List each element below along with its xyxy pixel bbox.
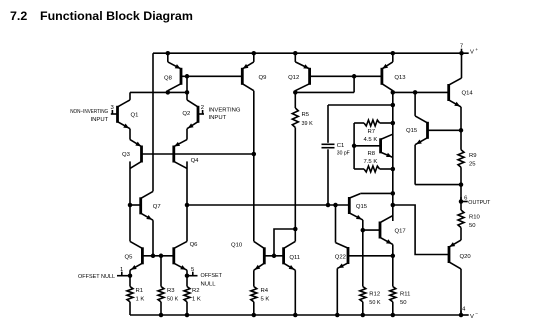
- pin 3 label: [111, 105, 115, 111]
- label R5: [302, 112, 313, 127]
- svg-text:NULL: NULL: [201, 282, 217, 288]
- svg-text:R8: R8: [368, 151, 376, 157]
- wire Q20 collector down: [460, 269, 462, 315]
- svg-text:25: 25: [469, 162, 476, 168]
- junction dot Q8 collector: [166, 90, 171, 95]
- wire R11 to rail: [392, 302, 394, 315]
- svg-text:R4: R4: [261, 288, 269, 294]
- wire R2 lead: [186, 276, 188, 287]
- wire Q15 driver emitter down: [362, 220, 364, 287]
- wire base tie down: [353, 76, 355, 92]
- label Q15 driver: [356, 204, 368, 210]
- wire Q2 collector up: [186, 92, 188, 100]
- svg-text:Q4: Q4: [191, 158, 200, 164]
- pin 3 tick: [111, 110, 113, 114]
- wire Q3-Q4 base line: [142, 153, 174, 155]
- junction dot Q22 emitter rail: [335, 313, 340, 318]
- wire Q6 emitter down: [186, 270, 188, 276]
- junction dot VBE base tap: [352, 144, 357, 149]
- svg-text:R3: R3: [167, 288, 175, 294]
- svg-text:−: −: [475, 312, 478, 317]
- label R11: [400, 291, 410, 306]
- svg-text:NON−INVERTING: NON−INVERTING: [70, 109, 108, 116]
- svg-text:Q8: Q8: [164, 76, 173, 82]
- wire R1 lead: [129, 276, 131, 287]
- wire mid node line: [187, 204, 349, 206]
- transistor Q6: [174, 241, 187, 270]
- label R10: [469, 214, 481, 229]
- junction dot R7 right: [391, 121, 396, 126]
- label Q6: [190, 242, 199, 248]
- wire Q11 collector up: [294, 229, 296, 241]
- label NON-INVERTING INPUT: [70, 109, 108, 123]
- label Q2: [182, 111, 190, 117]
- wire Q15 collector up: [414, 92, 416, 116]
- pin 1 tick: [121, 272, 123, 276]
- wire Q17 emitter down: [392, 244, 394, 286]
- junction dot C1 bottom: [326, 203, 331, 208]
- svg-text:Q17: Q17: [395, 229, 406, 235]
- transistor Q17: [380, 216, 393, 245]
- wire Q3 collector down: [129, 161, 131, 241]
- junction dot Q22 collector tap: [333, 203, 338, 208]
- label Q8: [164, 76, 173, 82]
- junction dot Q11 emitter rail: [293, 313, 298, 318]
- wire Q2 emitter down: [186, 129, 188, 140]
- svg-text:1 K: 1 K: [136, 297, 145, 303]
- wire V+ left wrap to Q7 collector: [152, 53, 154, 191]
- wire Q13 emitter to rail: [392, 53, 394, 62]
- label Q1: [131, 113, 139, 119]
- svg-text:Q3: Q3: [122, 152, 131, 158]
- transistor Q13: [382, 62, 393, 91]
- pin 1 wire: [117, 275, 130, 277]
- pin 4 tick: [460, 311, 462, 316]
- wire Q14 collector to rail: [461, 53, 463, 78]
- svg-text:5 K: 5 K: [261, 297, 270, 303]
- junction dot Q17 base: [361, 228, 366, 233]
- junction dot pin 4 rail end: [459, 313, 464, 318]
- wire R4 to rail: [253, 302, 255, 315]
- transistor Q15 current limit: [415, 116, 427, 145]
- resistor R5: [292, 108, 298, 128]
- node V+ label: [470, 48, 478, 56]
- wire Q22 base line: [348, 255, 393, 257]
- junction dot R11 rail: [391, 313, 396, 318]
- pin 5 wire: [187, 275, 198, 277]
- svg-text:V: V: [470, 50, 474, 56]
- wire R2 to rail: [186, 302, 188, 315]
- wire Q10-Q11 base riser: [274, 229, 295, 256]
- pin 6 tick: [460, 197, 462, 202]
- label R1: [136, 288, 145, 303]
- junction dot R3 rail: [159, 313, 164, 318]
- svg-text:7.5 K: 7.5 K: [364, 159, 378, 165]
- wire Q7 base: [130, 204, 141, 206]
- transistor Q15 driver: [349, 194, 363, 220]
- label Q13: [394, 75, 406, 81]
- capacitor C1 plates: [322, 144, 335, 147]
- junction dot Q15 collector link: [391, 191, 396, 196]
- label Q12: [288, 75, 299, 81]
- wire Q15 emitter to output node: [415, 184, 461, 186]
- junction dot Q7 base: [128, 203, 133, 208]
- wire Q17 base: [363, 229, 380, 231]
- wire C1 lower lead: [327, 149, 329, 205]
- transistor Q20: [449, 240, 461, 269]
- junction dot pin 7: [459, 51, 464, 56]
- junction dot R9 bottom output node: [459, 182, 464, 187]
- label R3: [167, 288, 178, 303]
- svg-text:Q11: Q11: [289, 255, 300, 261]
- svg-text:Q10: Q10: [231, 243, 243, 249]
- svg-text:R2: R2: [192, 288, 200, 294]
- svg-text:Q2: Q2: [182, 111, 190, 117]
- resistor R10: [458, 210, 464, 228]
- wire Q14 emitter down: [460, 107, 462, 150]
- wire R8 right lead: [380, 168, 393, 170]
- label Q4: [191, 158, 200, 164]
- transistor Q22: [336, 243, 349, 269]
- svg-text:V: V: [470, 314, 474, 320]
- wire Q20 base jog: [393, 205, 449, 255]
- wire R5 top lead: [294, 92, 296, 108]
- wire Q13 collector node to Q14 base: [393, 91, 449, 93]
- wire VBE multiplier left rail: [353, 123, 355, 169]
- wire C1 upper lead: [327, 105, 329, 143]
- svg-text:Q12: Q12: [288, 75, 299, 81]
- label INVERTING INPUT: [209, 108, 241, 122]
- pin 3 wire: [111, 113, 118, 115]
- svg-text:Q9: Q9: [259, 75, 267, 81]
- wire Q1 collector up: [129, 92, 131, 100]
- junction dot R8 right: [391, 167, 396, 172]
- junction dot Q20 base jog start: [391, 203, 396, 208]
- wire Q5 emitter down: [129, 270, 131, 276]
- label R2: [192, 288, 201, 303]
- resistor R11: [390, 287, 396, 302]
- wire Q15 base: [428, 129, 462, 131]
- svg-text:50: 50: [400, 300, 407, 306]
- label C1: [337, 143, 351, 157]
- wire Q8 base tie down: [186, 76, 188, 92]
- junction dot Q22 base at Q17 emitter: [391, 254, 396, 258]
- junction dot Q15 base at R9 top: [459, 128, 464, 133]
- pin 7 tick: [461, 49, 463, 54]
- junction dot Q12-Q13 base tie: [352, 74, 357, 79]
- label Q15 current limit: [406, 128, 418, 134]
- wire Q12 collector tie line: [295, 91, 354, 93]
- svg-text:OUTPUT: OUTPUT: [468, 200, 491, 206]
- transistor Q11: [284, 241, 296, 270]
- wire Q9 collector down to Q10: [253, 91, 255, 242]
- junction dot base line at Q9 column: [252, 152, 256, 157]
- junction dot pin 5: [185, 273, 190, 278]
- svg-text:R9: R9: [469, 153, 477, 159]
- pin 5 tick: [192, 272, 194, 276]
- wire R3 lead down: [160, 256, 162, 287]
- transistor Q3: [130, 140, 142, 169]
- junction dot Q8 base tie: [185, 74, 190, 79]
- transistor Q12: [295, 62, 309, 91]
- junction dot riser at base line: [272, 254, 277, 258]
- svg-text:Q6: Q6: [190, 242, 199, 248]
- transistor Q2: [187, 100, 198, 129]
- transistor Q9: [242, 62, 254, 91]
- junction dot Q12 emitter rail: [293, 51, 298, 56]
- junction dot Q13 emitter rail: [391, 51, 396, 56]
- junction dot Q8 emitter rail: [166, 51, 171, 56]
- svg-text:50: 50: [469, 223, 476, 229]
- label Q9: [259, 75, 267, 81]
- wire gain column vertical: [392, 92, 394, 221]
- svg-text:39 K: 39 K: [302, 121, 313, 127]
- svg-text:30 pF: 30 pF: [337, 150, 351, 156]
- wire C1 top link: [328, 104, 393, 106]
- resistor R3: [158, 287, 164, 302]
- label Q10: [231, 243, 243, 249]
- title text: [10, 9, 193, 23]
- wire Q5-Q6 base line: [142, 255, 173, 257]
- svg-text:50 K: 50 K: [369, 300, 380, 306]
- junction dot pin 1: [128, 273, 133, 278]
- label R4: [261, 288, 270, 303]
- svg-text:1: 1: [120, 267, 123, 273]
- svg-text:7.2: 7.2: [10, 9, 27, 23]
- wire Q11 emitter down: [294, 270, 296, 315]
- transistor VBE multiplier: [381, 134, 393, 157]
- label R7: [364, 129, 378, 143]
- wire R7 right lead: [380, 122, 393, 124]
- resistor R8: [364, 166, 380, 172]
- pin 1 label: [120, 267, 123, 273]
- wire R9 to pin 6: [460, 167, 462, 210]
- label Q5: [125, 255, 134, 261]
- transistor Q4: [174, 140, 187, 169]
- svg-text:Functional Block Diagram: Functional Block Diagram: [40, 9, 193, 23]
- svg-text:Q1: Q1: [131, 113, 139, 119]
- junction dot Q9 emitter rail: [252, 51, 256, 56]
- wire VBE base: [354, 145, 381, 147]
- junction dot pin 6: [459, 199, 464, 204]
- wire Q12-Q13 base line: [310, 75, 382, 77]
- pin 4 stub: [461, 314, 469, 316]
- wire Q9 emitter to rail: [253, 53, 255, 62]
- pin 2 tick: [202, 110, 204, 114]
- svg-text:Q22: Q22: [335, 254, 346, 260]
- junction dot Q12 collector: [293, 90, 298, 95]
- label OFFSET NULL pin 5: [201, 273, 223, 288]
- svg-text:50 K: 50 K: [167, 297, 178, 303]
- label R12: [369, 291, 380, 306]
- transistor Q7: [141, 191, 153, 220]
- wire Q22 emitter down: [336, 268, 338, 315]
- pin 6 label: [464, 196, 468, 202]
- junction dot C1 top at gain column: [391, 103, 396, 108]
- wire Q15 driver collector link: [360, 192, 393, 194]
- label Q7: [153, 204, 161, 210]
- label Q3: [122, 152, 131, 158]
- svg-text:R12: R12: [369, 291, 380, 297]
- wire R12 to rail: [362, 302, 364, 315]
- svg-text:INPUT: INPUT: [209, 115, 227, 121]
- pin 2 label: [201, 105, 204, 111]
- label OUTPUT: [468, 200, 491, 206]
- svg-text:Q20: Q20: [460, 254, 472, 260]
- wire R5 bottom to Q11 collector: [294, 128, 296, 230]
- wire Q8 emitter to rail: [167, 53, 169, 62]
- svg-text:Q15: Q15: [356, 204, 368, 210]
- junction dot Q7 emitter at base line: [151, 254, 156, 258]
- pin 4 label: [462, 307, 466, 313]
- wire Q8-Q9 base line: [181, 75, 242, 77]
- label Q22: [335, 254, 346, 260]
- wire Q22 collector up: [335, 205, 337, 243]
- wire Q4 collector down: [186, 161, 188, 241]
- wire R8 left lead: [354, 168, 364, 170]
- label Q20: [460, 254, 472, 260]
- label R8: [364, 151, 378, 165]
- node V- label: [470, 312, 478, 320]
- resistor R1: [127, 287, 133, 302]
- svg-text:C1: C1: [337, 143, 345, 149]
- resistor R4: [251, 287, 257, 302]
- junction dot Q15 collector at Q14 base line: [413, 90, 418, 95]
- svg-text:R1: R1: [136, 288, 144, 294]
- label Q17: [395, 229, 406, 235]
- label R9: [469, 153, 477, 168]
- wire V- bottom rail: [130, 314, 461, 316]
- wire V+ top rail: [153, 52, 462, 54]
- svg-text:R10: R10: [469, 214, 481, 220]
- pin 7 stub: [462, 52, 469, 54]
- wire R3 to rail: [160, 302, 162, 315]
- transistor Q10: [254, 241, 264, 270]
- svg-text:INPUT: INPUT: [91, 117, 109, 123]
- svg-text:+: +: [475, 48, 478, 53]
- wire R1 to rail corner: [129, 302, 131, 315]
- pin 7 label: [460, 44, 463, 50]
- svg-text:R7: R7: [368, 129, 376, 135]
- wire Q10-Q11 base line: [264, 255, 283, 257]
- junction dot R2 rail: [185, 313, 190, 318]
- junction dot node line left end: [185, 203, 190, 208]
- transistor Q1: [118, 100, 131, 129]
- svg-text:Q14: Q14: [462, 91, 474, 97]
- resistor R12: [360, 287, 366, 302]
- svg-text:INVERTING: INVERTING: [209, 108, 241, 114]
- svg-text:Q15: Q15: [406, 128, 418, 134]
- wire Q1 emitter down: [129, 129, 131, 140]
- svg-text:R11: R11: [400, 291, 410, 297]
- pin 6 stub: [461, 201, 468, 203]
- junction dot Q8 base tie and Q2 collector: [185, 90, 190, 95]
- svg-text:OFFSET: OFFSET: [201, 273, 223, 279]
- resistor R7: [364, 120, 380, 126]
- label OFFSET NULL pin 1: [78, 274, 115, 280]
- wire Q15 emitter down: [414, 145, 416, 185]
- wire R10 to Q20 emitter: [460, 228, 462, 241]
- svg-text:4.5 K: 4.5 K: [364, 137, 378, 143]
- wire Q10 emitter down: [253, 270, 255, 286]
- wire Q4 base to Q9-Q10 collectors: [174, 153, 254, 155]
- wire Q8 collector stub: [167, 91, 169, 93]
- wire Q7 emitter down: [152, 220, 154, 256]
- pin 2 wire: [198, 113, 204, 115]
- transistor Q14: [449, 78, 462, 107]
- junction dot base tie at R5 column: [293, 227, 298, 232]
- wire Q12 emitter to rail: [294, 53, 296, 62]
- wire R7 left lead: [354, 122, 364, 124]
- junction dot R4 rail: [252, 313, 256, 318]
- svg-text:Q13: Q13: [394, 75, 406, 81]
- svg-text:7: 7: [460, 44, 463, 50]
- svg-text:Q7: Q7: [153, 204, 161, 210]
- resistor R2: [184, 287, 190, 302]
- svg-text:Q5: Q5: [125, 255, 134, 261]
- svg-text:R5: R5: [302, 112, 310, 118]
- transistor Q5: [130, 241, 142, 270]
- svg-text:2: 2: [201, 105, 204, 111]
- wire collectors node line Q1-Q8-Q2: [130, 91, 187, 93]
- junction dot R12 rail: [361, 313, 366, 318]
- svg-text:OFFSET NULL: OFFSET NULL: [78, 274, 115, 280]
- resistor R9: [458, 150, 464, 167]
- junction dot Q13 collector: [391, 90, 396, 95]
- label Q14: [462, 91, 474, 97]
- transistor Q8: [168, 62, 181, 91]
- svg-text:1 K: 1 K: [192, 297, 201, 303]
- pin 5 label: [191, 267, 195, 273]
- junction dot R3 top: [159, 254, 164, 258]
- label Q11: [289, 255, 300, 261]
